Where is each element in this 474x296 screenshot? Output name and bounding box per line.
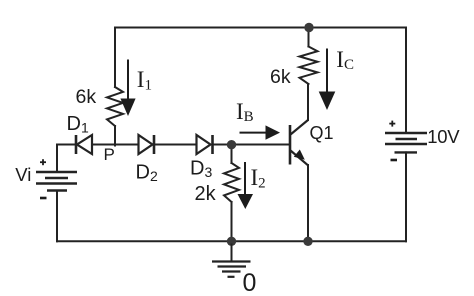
svg-text:6k: 6k xyxy=(76,86,97,108)
svg-text:P: P xyxy=(104,145,115,164)
wire D3 to base of Q1 xyxy=(213,144,289,146)
wire left 6k to node P xyxy=(114,126,116,146)
svg-text:IC: IC xyxy=(336,47,354,73)
diode D1 (cathode left) xyxy=(76,135,92,154)
svg-text:Q1: Q1 xyxy=(310,123,334,143)
emitter arrowhead Q1 xyxy=(294,150,305,160)
current arrow I2 xyxy=(238,162,254,209)
ground xyxy=(212,244,251,277)
battery 10V xyxy=(385,133,427,152)
node dot top (6k/collector rail) xyxy=(304,23,313,32)
wire Vi to D1 xyxy=(57,145,75,173)
plus sign Vi xyxy=(40,159,46,165)
wire Vi bottom xyxy=(56,191,58,242)
wire 2k resistor to bottom rail xyxy=(231,202,233,241)
wire 10V bottom xyxy=(405,152,407,241)
resistor 6k left xyxy=(107,87,123,126)
resistor 2k xyxy=(224,163,239,202)
battery Vi xyxy=(36,172,77,191)
current arrow IB xyxy=(240,125,281,139)
wire D1 to D2 xyxy=(92,144,138,146)
node dot bottom emitter xyxy=(303,237,312,246)
diode D2 xyxy=(139,135,155,154)
svg-text:I1: I1 xyxy=(137,67,152,94)
wire D2 to D3 xyxy=(155,144,196,146)
node dot after D3 xyxy=(227,140,236,149)
wire 10V top xyxy=(405,28,407,134)
wire emitter to bottom rail xyxy=(307,165,309,241)
resistor 6k right (collector) xyxy=(300,47,318,85)
node dot bottom ground xyxy=(227,237,236,246)
svg-text:0: 0 xyxy=(243,269,257,296)
svg-text:D3: D3 xyxy=(190,158,212,181)
current arrow I1 xyxy=(120,60,135,117)
svg-text:Vi: Vi xyxy=(15,164,31,185)
svg-text:I2: I2 xyxy=(251,165,266,192)
svg-text:6k: 6k xyxy=(270,66,291,88)
wire node to 2k resistor xyxy=(231,145,233,163)
current arrow IC xyxy=(319,49,336,111)
svg-text:2k: 2k xyxy=(195,183,217,205)
svg-text:D1: D1 xyxy=(67,113,89,136)
svg-text:10V: 10V xyxy=(427,126,460,147)
wire collector 6k top xyxy=(308,28,310,47)
wire top rail xyxy=(115,28,406,88)
transistor Q1 xyxy=(290,120,308,165)
diode D3 xyxy=(197,135,213,154)
plus sign 10V xyxy=(389,121,395,127)
minus sign Vi xyxy=(40,197,47,200)
svg-text:D2: D2 xyxy=(136,162,158,185)
wire 6k to collector xyxy=(307,84,309,120)
minus sign 10V xyxy=(391,159,398,162)
svg-text:IB: IB xyxy=(236,99,254,125)
wire bottom rail xyxy=(57,240,406,242)
